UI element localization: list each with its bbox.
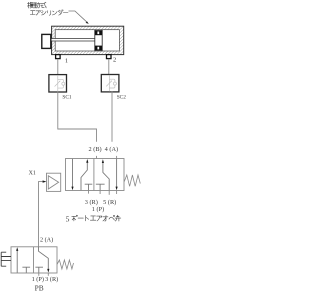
svg-text:3 (R): 3 (R) [45,276,58,283]
wire SC2 to valve port 4(A) [111,92,113,142]
cylinder port 2 [107,55,112,59]
valve V1 left box: blocked 5 [85,184,93,190]
piston rod (double line) [51,38,95,40]
rod end block [42,34,51,48]
svg-text:4 (A): 4 (A) [105,146,118,153]
valve PB left box: path 1->2 [16,251,18,273]
valve V1 left box: path 1->4 [81,162,87,190]
cylinder bore [55,30,119,51]
speed controller SC2 [101,75,126,101]
svg-text:2 (B): 2 (B) [89,146,102,153]
svg-text:PB: PB [35,284,44,293]
valve PB right box: blocked 1 [35,267,43,273]
wire port2 to SC2 [108,59,110,75]
piston [94,30,96,51]
leader line to cylinder [69,11,88,23]
3-port valve PB body [11,247,57,273]
svg-text:SC2: SC2 [117,94,126,100]
svg-text:SC1: SC1 [62,94,71,100]
push button actuator [1,252,11,266]
wire SC1 to valve port 2(B) [58,92,97,142]
valve V1 right box: path 4->5 [116,159,118,187]
valve PB return spring [57,260,74,269]
valve V1 left box: path 2->3 [72,159,74,187]
valve PB left box: blocked 3 [22,267,30,273]
valve PB right box: path 2->3 [39,247,49,269]
svg-text:2 (A): 2 (A) [40,237,53,244]
svg-text:1: 1 [65,57,68,64]
piston seal bottom [95,46,102,51]
svg-text:1 (P): 1 (P) [92,206,104,213]
piston seal top [95,30,102,35]
valve V1 air pilot box [47,173,61,191]
5-port valve V1 body [66,159,125,191]
valve V1 right box: blocked 3 [96,184,105,190]
svg-text:2: 2 [113,57,116,64]
svg-text:1 (P): 1 (P) [32,276,44,283]
wire port1 to SC1 [57,59,59,75]
valve V1 return spring [124,175,140,186]
speed controller SC1 [49,75,72,101]
svg-text:5 (R): 5 (R) [103,199,116,206]
svg-text:X1: X1 [29,171,36,177]
rod gap in left wall [51,38,56,41]
cylinder port 1 [56,55,61,59]
label: 複動式 (double-acting) [27,2,33,8]
cylinder C1 body (hatched walls) [52,26,124,54]
valve V1 right box: path 1->2 [103,163,109,191]
label: エアシリンダー (air cylinder) [30,11,35,15]
pilot signal X1 wire + arrow [39,182,43,247]
svg-text:5: 5 [66,215,70,224]
